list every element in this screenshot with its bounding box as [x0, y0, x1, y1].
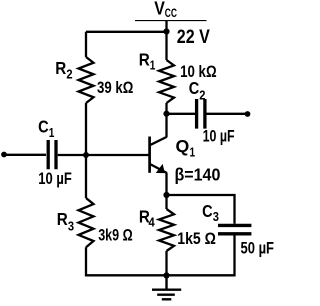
svg-text:V: V: [154, 0, 165, 19]
wire top rail (VCC node to R2/R1 tops): [86, 32, 167, 57]
svg-text:R: R: [57, 209, 68, 229]
svg-text:1: 1: [190, 144, 196, 159]
wire VCC stem: [165, 21, 167, 32]
resistor R3: [79, 198, 94, 247]
node output terminal: [245, 111, 251, 117]
svg-text:Q: Q: [176, 136, 190, 156]
svg-text:39 kΩ: 39 kΩ: [97, 78, 133, 97]
capacitor C3: [218, 225, 251, 233]
svg-text:50 µF: 50 µF: [241, 239, 275, 258]
svg-text:C: C: [38, 116, 49, 136]
node junction collector/C2: [163, 111, 169, 117]
ground symbol: [152, 275, 181, 299]
wire R1 top lead: [165, 32, 167, 60]
transistor Q1 emitter lead: [151, 164, 167, 195]
svg-text:R: R: [55, 58, 66, 78]
capacitor C2: [197, 99, 205, 129]
svg-text:3k9 Ω: 3k9 Ω: [98, 226, 133, 245]
power VCC bar: [135, 20, 207, 22]
svg-text:1k5 Ω: 1k5 Ω: [177, 229, 216, 248]
svg-text:CC: CC: [165, 8, 177, 20]
node junction base/R2/R3: [83, 152, 89, 158]
svg-text:β=140: β=140: [175, 164, 221, 184]
wire C3 bottom to ground rail: [233, 235, 235, 276]
svg-text:1: 1: [150, 58, 156, 73]
svg-text:22 V: 22 V: [177, 27, 210, 48]
svg-text:10 µF: 10 µF: [203, 126, 235, 145]
svg-text:R: R: [139, 49, 150, 69]
resistor R4: [159, 209, 174, 251]
wire R2 bottom to base node: [85, 103, 87, 198]
svg-text:4: 4: [149, 215, 156, 230]
wire R1 bottom to collector node: [165, 103, 167, 114]
svg-text:2: 2: [199, 87, 205, 102]
wire C1 to base of Q1: [58, 154, 149, 156]
wire emitter node to R4: [165, 195, 167, 209]
wire R4 bottom to ground rail: [165, 251, 167, 275]
wire input terminal to C1: [4, 154, 46, 156]
svg-text:C: C: [202, 201, 213, 221]
resistor R2: [79, 57, 94, 103]
resistor R1: [159, 60, 174, 103]
wire C2 to output terminal: [207, 113, 247, 115]
svg-text:C: C: [189, 78, 200, 98]
svg-text:3: 3: [213, 209, 219, 224]
node junction VCC: [163, 28, 169, 34]
transistor Q1 collector lead: [151, 114, 167, 145]
svg-text:10 µF: 10 µF: [38, 169, 72, 188]
node junction emitter/R4/C3: [163, 192, 169, 198]
wire collector node to C2: [167, 113, 196, 115]
transistor Q1 emitter arrowhead: [156, 164, 165, 173]
node junction ground rail: [163, 272, 169, 278]
wire emitter node to C3 branch: [167, 194, 235, 224]
svg-text:1: 1: [49, 125, 55, 140]
svg-text:3: 3: [68, 218, 74, 233]
wire R3 bottom to ground rail: [85, 247, 235, 275]
transistor Q1 base bar: [148, 137, 151, 173]
capacitor C1: [48, 140, 56, 169]
node input terminal: [1, 152, 7, 158]
svg-text:2: 2: [66, 67, 72, 82]
